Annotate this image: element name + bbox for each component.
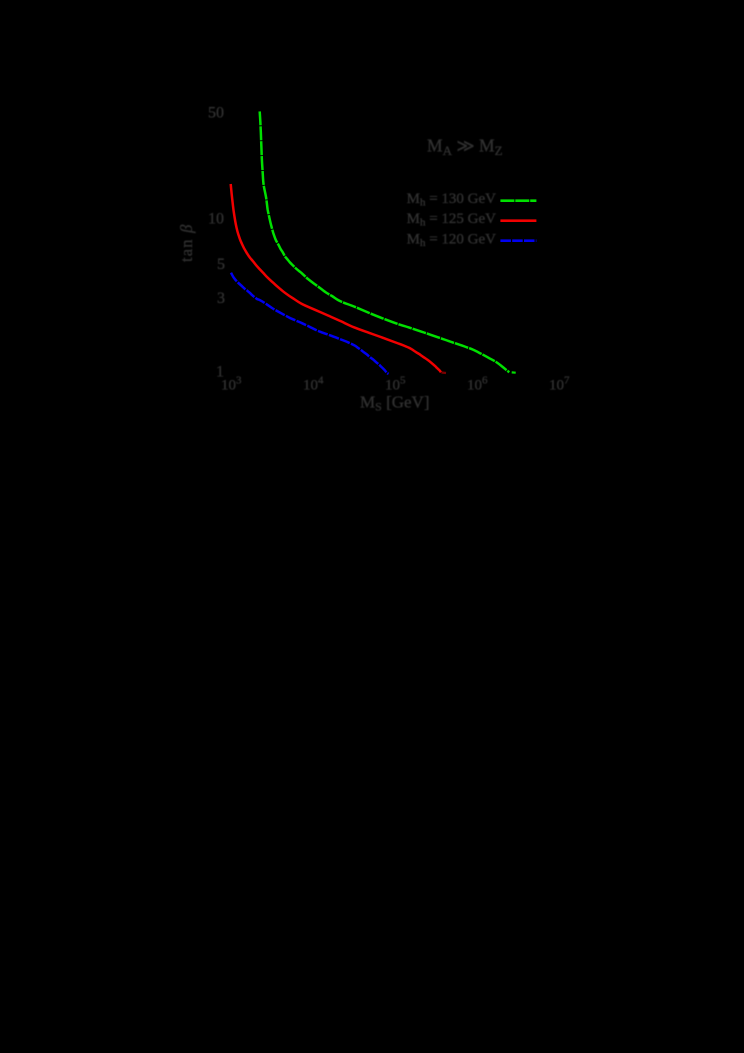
legend line green dashed [500, 199, 536, 202]
svg-text:MS [GeV]: MS [GeV] [360, 393, 429, 414]
red curve final faded dash [442, 371, 447, 374]
curve Mh=130 green dashed [260, 111, 510, 372]
green curve final dash [512, 371, 516, 374]
curve Mh=125 red solid [231, 184, 441, 372]
svg-text:tan β: tan β [177, 223, 196, 262]
legend line blue dashed [500, 239, 536, 242]
svg-text:50: 50 [208, 105, 224, 122]
svg-text:3: 3 [217, 290, 225, 307]
legend line red solid [500, 219, 536, 222]
svg-text:5: 5 [217, 256, 225, 273]
svg-text:10: 10 [208, 210, 224, 227]
curve Mh=120 blue dashed [231, 273, 389, 374]
svg-text:MA ≫ MZ: MA ≫ MZ [427, 136, 503, 159]
